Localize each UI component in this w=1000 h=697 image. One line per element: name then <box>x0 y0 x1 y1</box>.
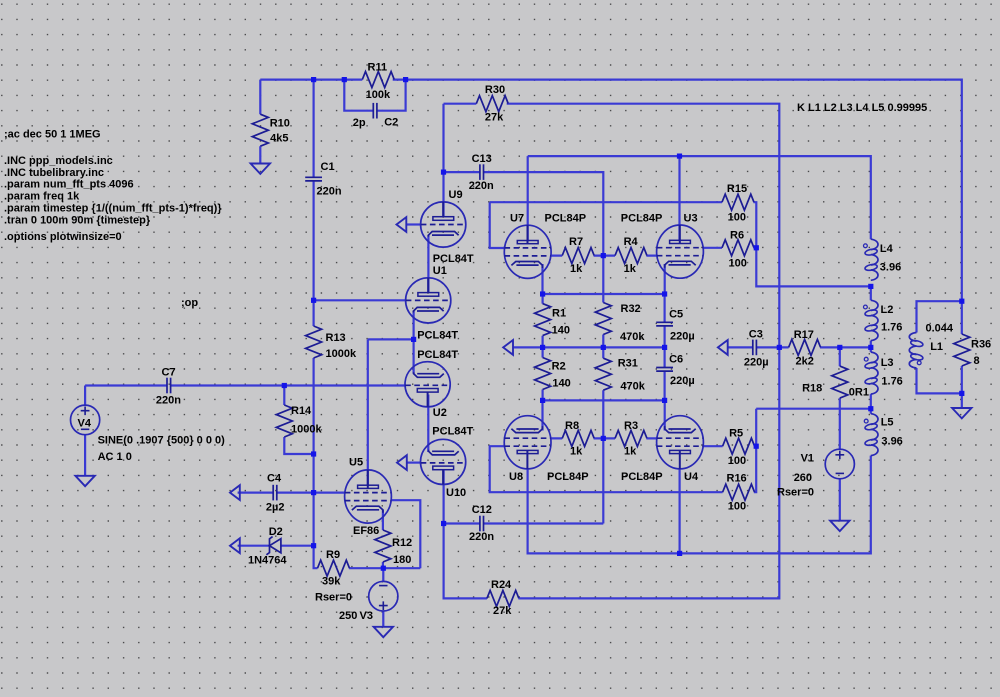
wire lower cathode rail <box>543 399 665 401</box>
wire R8-R3 row <box>551 437 657 439</box>
inductor L2 <box>864 300 879 340</box>
svg-text:PCL84P: PCL84P <box>621 213 663 225</box>
ground R36 <box>952 408 971 418</box>
resistor R12 <box>375 530 391 562</box>
triode U9 <box>421 202 466 247</box>
wire U8 g2 loop to R16 <box>490 446 723 492</box>
svg-text:3.96: 3.96 <box>881 436 902 448</box>
svg-text:220n: 220n <box>156 395 181 407</box>
label U2 <box>417 349 458 419</box>
svg-text:39k: 39k <box>322 575 341 587</box>
inductor L1 <box>909 333 923 369</box>
label V4 value <box>98 434 226 463</box>
pentode U8 <box>504 416 551 469</box>
label K coupling <box>797 102 927 114</box>
svg-text:1k: 1k <box>570 263 583 275</box>
inductor L4 <box>864 239 879 280</box>
svg-text:.INC ppp_models.inc: .INC ppp_models.inc <box>4 155 113 167</box>
svg-text:100: 100 <box>728 501 746 513</box>
svg-text:1.76: 1.76 <box>881 322 902 334</box>
wire C13 row <box>444 172 604 302</box>
label R36 <box>971 339 991 367</box>
wire C6 pins <box>663 347 665 400</box>
svg-text:R15: R15 <box>727 183 747 195</box>
svg-text:27k: 27k <box>493 605 512 617</box>
voltage source V4 <box>71 405 100 435</box>
label R8 <box>565 420 583 457</box>
svg-text:C5: C5 <box>669 308 683 320</box>
svg-text:U3: U3 <box>684 213 698 225</box>
svg-text:R2: R2 <box>552 361 566 373</box>
label R24 <box>491 579 512 617</box>
resistor R30 <box>476 96 508 112</box>
svg-text:100k: 100k <box>366 89 391 101</box>
label C7 <box>156 366 181 406</box>
label U3 <box>621 213 698 225</box>
svg-text:8: 8 <box>974 355 980 367</box>
pentode U7 <box>504 225 551 278</box>
label V3 <box>315 592 373 622</box>
wire V1 ground pin <box>839 479 841 521</box>
triode U1 <box>406 278 451 323</box>
label L5 <box>881 417 903 448</box>
svg-text:R10: R10 <box>270 117 290 129</box>
label L3 <box>881 357 903 388</box>
svg-text:U1: U1 <box>433 265 447 277</box>
label R32 <box>620 303 645 343</box>
wire U4 cathode rise <box>664 400 666 430</box>
svg-text:140: 140 <box>552 378 570 390</box>
voltage source V1 <box>825 449 854 479</box>
resistor R9 <box>318 560 350 576</box>
svg-text:L5: L5 <box>881 417 894 429</box>
ground V3 <box>374 627 393 637</box>
wire C1 column <box>313 80 315 301</box>
svg-text:R32: R32 <box>621 303 641 315</box>
label C3 <box>744 329 769 369</box>
svg-text:2µ2: 2µ2 <box>266 502 285 514</box>
svg-text:27k: 27k <box>485 112 504 124</box>
wire top supply rail <box>260 80 962 334</box>
label R13 <box>326 332 357 360</box>
svg-text:V4: V4 <box>78 418 92 430</box>
svg-text:R7: R7 <box>569 236 583 248</box>
wire L5 pins <box>870 409 872 414</box>
svg-text:R12: R12 <box>392 537 412 549</box>
svg-text:K L1 L2 L3 L4 L5 0.99995: K L1 L2 L3 L4 L5 0.99995 <box>797 102 927 114</box>
svg-text:2p: 2p <box>353 117 366 129</box>
io arrow U9 grid <box>397 217 407 232</box>
capacitor C5 <box>656 322 673 326</box>
io arrow C3 <box>718 340 728 355</box>
svg-text:SINE(0 .1907 {500} 0 0 0): SINE(0 .1907 {500} 0 0 0) <box>98 434 226 446</box>
svg-text:R6: R6 <box>730 230 744 242</box>
label R2 <box>552 361 571 390</box>
label C6 <box>669 353 695 387</box>
label R1 <box>552 308 570 337</box>
wire U1 grid row <box>314 299 406 301</box>
resistor R10 <box>252 114 268 146</box>
label U8 <box>509 471 589 483</box>
svg-text:PCL84T: PCL84T <box>433 253 474 265</box>
label R17 <box>794 329 814 368</box>
svg-text:R16: R16 <box>727 472 747 484</box>
resistor R32 <box>595 303 611 335</box>
svg-text:R36: R36 <box>971 339 991 351</box>
wire U9 cathode to U1 anode <box>427 235 429 292</box>
wire U7 cathode drop <box>541 264 543 294</box>
label R31 <box>618 358 646 393</box>
wire R11-C2 parallel loop <box>344 80 405 111</box>
resistor R4 <box>615 248 647 264</box>
resistor R13 <box>306 326 322 358</box>
wire plate supply rail to L4 <box>528 156 871 239</box>
capacitor C7 <box>167 378 171 394</box>
inductor L5 <box>864 414 878 456</box>
label R14 <box>291 405 322 436</box>
svg-text:PCL84T: PCL84T <box>432 425 473 437</box>
wire R1 pins <box>541 294 543 347</box>
label C1 <box>317 161 342 198</box>
label R7 <box>569 236 583 275</box>
label C2 <box>353 116 398 129</box>
svg-text:R31: R31 <box>618 358 638 370</box>
svg-text:R3: R3 <box>624 420 638 432</box>
svg-text:C1: C1 <box>321 161 335 173</box>
label L1 <box>926 322 954 353</box>
wire R16 right riser <box>754 409 871 493</box>
svg-text:L1: L1 <box>930 341 943 353</box>
svg-text:470k: 470k <box>620 381 645 393</box>
svg-text:C7: C7 <box>162 366 176 378</box>
svg-text:.tran 0 100m 90m {timestep}: .tran 0 100m 90m {timestep} <box>4 214 151 226</box>
wire R36 lower pin <box>961 366 963 408</box>
svg-text:180: 180 <box>393 554 411 566</box>
svg-text:2k2: 2k2 <box>796 355 814 367</box>
wire U3 cathode drop <box>664 264 666 294</box>
svg-text:3.96: 3.96 <box>880 262 901 274</box>
zener diode D2 <box>266 537 281 555</box>
label V4 <box>78 418 92 430</box>
label R16 <box>727 472 747 512</box>
wire R32-R31 column <box>602 335 604 524</box>
spice directive ac <box>4 129 101 141</box>
wire U7 g2 loop <box>490 202 505 248</box>
label R18 <box>802 382 869 398</box>
svg-text:1000k: 1000k <box>291 424 322 436</box>
svg-text:PCL84P: PCL84P <box>545 213 587 225</box>
svg-text:V3: V3 <box>360 610 373 622</box>
wire C7 input row <box>85 384 405 386</box>
svg-text:D2: D2 <box>269 526 283 538</box>
spice directive block <box>4 155 222 243</box>
wire U3 anode stem <box>678 156 680 240</box>
svg-text:1k: 1k <box>570 445 583 457</box>
svg-text:R13: R13 <box>326 332 346 344</box>
svg-text:L4: L4 <box>880 243 894 255</box>
label R9 <box>322 549 341 587</box>
label R15 <box>727 183 747 223</box>
svg-text:U2: U2 <box>433 407 447 419</box>
wire R9-V3 junction row <box>314 454 421 568</box>
svg-text:R30: R30 <box>485 84 505 96</box>
svg-text:100: 100 <box>728 211 746 223</box>
label U4 <box>621 471 699 483</box>
label C13 <box>469 153 494 192</box>
wire D2 row <box>238 545 314 547</box>
resistor R16 <box>723 484 755 500</box>
resistor R11 <box>362 72 394 88</box>
resistor R2 <box>535 358 551 390</box>
voltage source V3 <box>369 581 398 611</box>
svg-text:U9: U9 <box>449 189 463 201</box>
io arrow bias rail <box>503 340 513 355</box>
resistor R17 <box>789 339 821 355</box>
svg-text:U5: U5 <box>349 457 363 469</box>
svg-text:C12: C12 <box>472 504 492 516</box>
svg-text:0.044: 0.044 <box>926 322 954 334</box>
capacitor C12 <box>480 516 484 532</box>
svg-text:U7: U7 <box>510 213 524 225</box>
wire U4 anode drop <box>678 469 680 553</box>
svg-text:1.76: 1.76 <box>881 376 902 388</box>
label U10 <box>432 425 473 499</box>
label C12 <box>469 504 494 543</box>
svg-text:C13: C13 <box>472 153 492 165</box>
svg-text:0R1: 0R1 <box>849 386 869 398</box>
wire U8 cathode rise <box>541 400 543 430</box>
resistor R1 <box>535 304 551 336</box>
label U5 <box>349 457 379 538</box>
svg-text:C4: C4 <box>267 473 282 485</box>
svg-text:R24: R24 <box>491 579 512 591</box>
label U7 <box>510 213 586 225</box>
wire U7 anode stem <box>527 156 529 240</box>
wire U9 grid input <box>406 223 420 225</box>
wire C3-R17 row <box>728 346 871 348</box>
pentode U5 <box>345 470 392 523</box>
svg-text:R14: R14 <box>291 405 312 417</box>
wire R2 pins <box>541 347 543 400</box>
triode U2 <box>405 362 450 407</box>
label C5 <box>669 308 695 342</box>
label U9 <box>433 189 474 265</box>
wire U8 anode drop and bottom rail <box>528 456 871 554</box>
label R30 <box>485 84 505 124</box>
wire R6 to U3 <box>703 247 756 249</box>
svg-text:U10: U10 <box>446 487 466 499</box>
svg-text:R18: R18 <box>802 382 822 394</box>
svg-text:PCL84P: PCL84P <box>621 471 663 483</box>
resistor R7 <box>562 248 594 264</box>
resistor R8 <box>562 430 594 446</box>
io arrow D2 <box>230 538 240 553</box>
svg-text:AC 1 0: AC 1 0 <box>98 451 132 463</box>
label C4 <box>266 473 285 514</box>
wire R10 branch <box>259 80 261 164</box>
wire U10 grid input <box>407 462 421 464</box>
io arrow C4 <box>230 485 240 500</box>
svg-text:250: 250 <box>339 610 357 622</box>
svg-text:PCL84T: PCL84T <box>417 349 458 361</box>
wire U2 anode to U10 cathode <box>427 395 429 453</box>
wire C4 row <box>238 492 346 494</box>
capacitor C13 <box>480 164 484 180</box>
svg-text:R8: R8 <box>565 420 579 432</box>
triode U10 <box>421 439 466 484</box>
wire R18 pins <box>839 347 841 449</box>
svg-text:140: 140 <box>552 324 570 336</box>
svg-text:220n: 220n <box>317 186 342 198</box>
ground R10 <box>251 164 270 174</box>
svg-text:R5: R5 <box>729 428 743 440</box>
wire V3 pins <box>382 568 384 627</box>
wire upper cathode rail <box>543 293 665 295</box>
wire L2 pins <box>870 286 872 347</box>
capacitor C4 <box>273 485 277 501</box>
label L2 <box>881 304 903 334</box>
wire R13 column <box>313 300 315 454</box>
wire U5 anode stem <box>367 339 369 485</box>
label U1 <box>417 265 458 342</box>
wire R12 pins <box>382 510 384 568</box>
svg-text:;ac dec 50 1 1MEG: ;ac dec 50 1 1MEG <box>4 129 101 141</box>
resistor R3 <box>615 430 647 446</box>
inductor L3 <box>864 352 878 394</box>
wire C5 pins <box>663 294 665 347</box>
svg-text:R4: R4 <box>624 236 639 248</box>
svg-text:R9: R9 <box>326 549 340 561</box>
svg-text:220n: 220n <box>469 180 494 192</box>
svg-text:470k: 470k <box>620 331 645 343</box>
resistor R6 <box>722 240 754 256</box>
svg-text:220n: 220n <box>469 531 494 543</box>
label R10 <box>270 117 290 144</box>
label R12 <box>392 537 412 566</box>
svg-text:;op: ;op <box>181 297 198 309</box>
wire U9 anode column <box>442 104 444 217</box>
svg-text:220µ: 220µ <box>670 375 695 387</box>
wire C12 row <box>444 471 604 599</box>
label V1 <box>777 453 814 499</box>
io arrow U10 grid <box>397 455 407 470</box>
svg-text:100: 100 <box>728 455 746 467</box>
label R5 <box>728 428 746 467</box>
svg-text:Rser=0: Rser=0 <box>777 487 814 499</box>
svg-text:.INC tubelibrary.inc: .INC tubelibrary.inc <box>4 167 104 179</box>
svg-text:PCL84T: PCL84T <box>417 330 458 342</box>
resistor R36 <box>954 334 970 366</box>
svg-text:260: 260 <box>794 472 812 484</box>
wire middle bias rail <box>513 346 664 348</box>
capacitor C2 <box>373 103 377 119</box>
label L4 <box>880 243 901 274</box>
resistor R15 <box>722 194 754 210</box>
svg-text:C2: C2 <box>384 116 398 128</box>
label R4 <box>624 236 639 275</box>
wire R7-R4 row <box>551 255 657 257</box>
svg-text:1N4764: 1N4764 <box>248 554 287 566</box>
svg-text:1000k: 1000k <box>326 348 357 360</box>
resistor R18 <box>832 366 848 398</box>
svg-text:R11: R11 <box>368 61 388 73</box>
pentode U4 <box>657 416 704 469</box>
wire junction dots <box>282 77 965 571</box>
ground V1 <box>830 521 849 531</box>
resistor R14 <box>276 405 292 437</box>
svg-text:.param timestep {1/((num_fft_p: .param timestep {1/((num_fft_pts-1)*freq… <box>4 202 222 214</box>
svg-text:220µ: 220µ <box>744 356 769 368</box>
label R6 <box>729 230 747 270</box>
svg-text:C3: C3 <box>749 329 763 341</box>
label R3 <box>624 420 638 457</box>
wire R14 branch <box>284 386 313 455</box>
svg-text:.param freq 1k: .param freq 1k <box>4 190 80 202</box>
svg-text:V1: V1 <box>801 453 814 465</box>
resistor R5 <box>723 438 755 454</box>
svg-text:.param num_fft_pts 4096: .param num_fft_pts 4096 <box>4 179 134 191</box>
wire V4 pins <box>84 386 86 476</box>
wire R15 grid rail <box>490 202 871 286</box>
svg-text:R17: R17 <box>794 329 814 341</box>
svg-text:U4: U4 <box>684 471 699 483</box>
svg-text:R1: R1 <box>552 308 566 320</box>
wire L3 pins <box>870 347 872 408</box>
label D2 <box>248 526 287 566</box>
wire U1-U2 cathode link <box>368 311 414 374</box>
spice directive op <box>181 297 198 309</box>
label R11 <box>366 61 391 101</box>
capacitor C1 <box>305 177 322 181</box>
svg-text:C6: C6 <box>669 353 683 365</box>
svg-text:4k5: 4k5 <box>270 133 288 145</box>
svg-text:L3: L3 <box>881 357 894 369</box>
resistor R24 <box>487 590 519 606</box>
capacitor C3 <box>753 340 757 356</box>
svg-text:U8: U8 <box>509 471 523 483</box>
ground V4 <box>75 476 94 486</box>
wire R30 feedback rail <box>444 104 780 599</box>
svg-text:L2: L2 <box>881 304 894 316</box>
pentode U3 <box>657 225 704 278</box>
capacitor C6 <box>656 368 673 372</box>
wire R5 row <box>703 445 756 447</box>
svg-text:PCL84P: PCL84P <box>547 471 589 483</box>
svg-text:100: 100 <box>729 258 747 270</box>
svg-text:1k: 1k <box>624 263 637 275</box>
svg-text:EF86: EF86 <box>353 525 379 537</box>
wire U5 g2 loop <box>391 500 420 568</box>
wire L1 loop <box>917 301 962 393</box>
resistor R31 <box>595 358 611 390</box>
svg-text:220µ: 220µ <box>670 331 695 343</box>
svg-text:.options plotwinsize=0: .options plotwinsize=0 <box>4 231 122 243</box>
svg-text:Rser=0: Rser=0 <box>315 592 352 604</box>
svg-text:1k: 1k <box>624 445 637 457</box>
